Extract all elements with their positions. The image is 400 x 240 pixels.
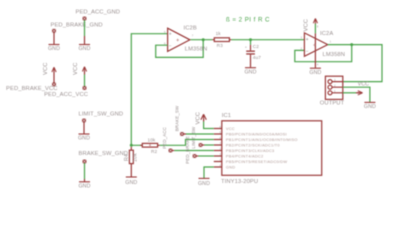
svg-text:LM358N: LM358N [185,46,208,52]
svg-text:PB0/PCINT0/AIN0/OC0A/MOSI: PB0/PCINT0/AIN0/OC0A/MOSI [226,131,287,136]
svg-text:−: − [169,43,172,49]
svg-text:VCC: VCC [304,19,310,32]
svg-text:1k: 1k [216,31,222,36]
svg-text:PB5/PCINT5/RESET/ADC0/DW: PB5/PCINT5/RESET/ADC0/DW [226,159,287,164]
svg-text:C2: C2 [253,44,259,49]
svg-text:LIMIT_SW_GND: LIMIT_SW_GND [79,112,124,118]
svg-text:ß = 2 PI f R C: ß = 2 PI f R C [226,16,270,23]
svg-text:−: − [306,49,309,55]
svg-text:GND: GND [198,181,210,187]
svg-text:+: + [306,37,309,43]
svg-text:PED_ACC_VCC: PED_ACC_VCC [44,92,88,98]
svg-text:PB2/PCINT2/SCK/ADC1/T0: PB2/PCINT2/SCK/ADC1/T0 [226,142,281,147]
svg-text:VCC: VCC [358,81,370,87]
svg-text:GND: GND [78,136,90,142]
svg-text:+: + [169,32,172,38]
svg-text:LM358N: LM358N [323,52,346,58]
svg-text:VCC: VCC [73,62,79,75]
svg-text:GND: GND [78,46,90,52]
svg-text:10k: 10k [148,137,156,142]
svg-text:PED_BRAKE_GND: PED_BRAKE_GND [51,23,103,29]
svg-text:VCC: VCC [226,126,235,131]
svg-text:GND: GND [78,183,90,189]
svg-text:BRAKE_SW_GND: BRAKE_SW_GND [79,151,129,157]
svg-text:PB3/PCINT3/CLKI/ADC3: PB3/PCINT3/CLKI/ADC3 [226,148,274,153]
svg-text:TINY13-20PU: TINY13-20PU [221,179,258,185]
svg-text:PED_ACC: PED_ACC [162,127,167,149]
svg-text:PED_ACC_GND: PED_ACC_GND [76,10,121,16]
svg-text:PED_BRAKE: PED_BRAKE [185,136,190,164]
svg-text:GND: GND [364,104,376,110]
svg-text:PB4/PCINT4/ADC2: PB4/PCINT4/ADC2 [226,153,263,158]
svg-text:R2: R2 [151,149,157,154]
svg-text:GND: GND [125,180,137,186]
svg-text:GND: GND [226,164,235,169]
svg-text:PB1/PCINT1/AIN1/OC0B/INT0/MISO: PB1/PCINT1/AIN1/OC0B/INT0/MISO [226,137,298,142]
svg-text:R4: R4 [124,154,130,161]
svg-text:4u7: 4u7 [253,55,261,60]
svg-text:GND: GND [48,46,60,52]
svg-text:+: + [245,46,247,50]
svg-text:IC2A: IC2A [320,31,333,37]
svg-text:OUTPUT: OUTPUT [320,100,345,106]
svg-text:IC2B: IC2B [184,25,197,31]
svg-text:R3: R3 [217,43,223,48]
svg-text:VCC: VCC [196,112,202,125]
svg-text:BRAKE_SW: BRAKE_SW [175,105,180,131]
svg-text:GND: GND [309,70,321,76]
svg-text:LIMIT_SW: LIMIT_SW [191,126,196,149]
svg-text:10k: 10k [133,153,139,162]
svg-text:IC1: IC1 [222,113,231,119]
svg-text:GND: GND [244,70,256,76]
svg-text:VCC: VCC [43,62,49,75]
